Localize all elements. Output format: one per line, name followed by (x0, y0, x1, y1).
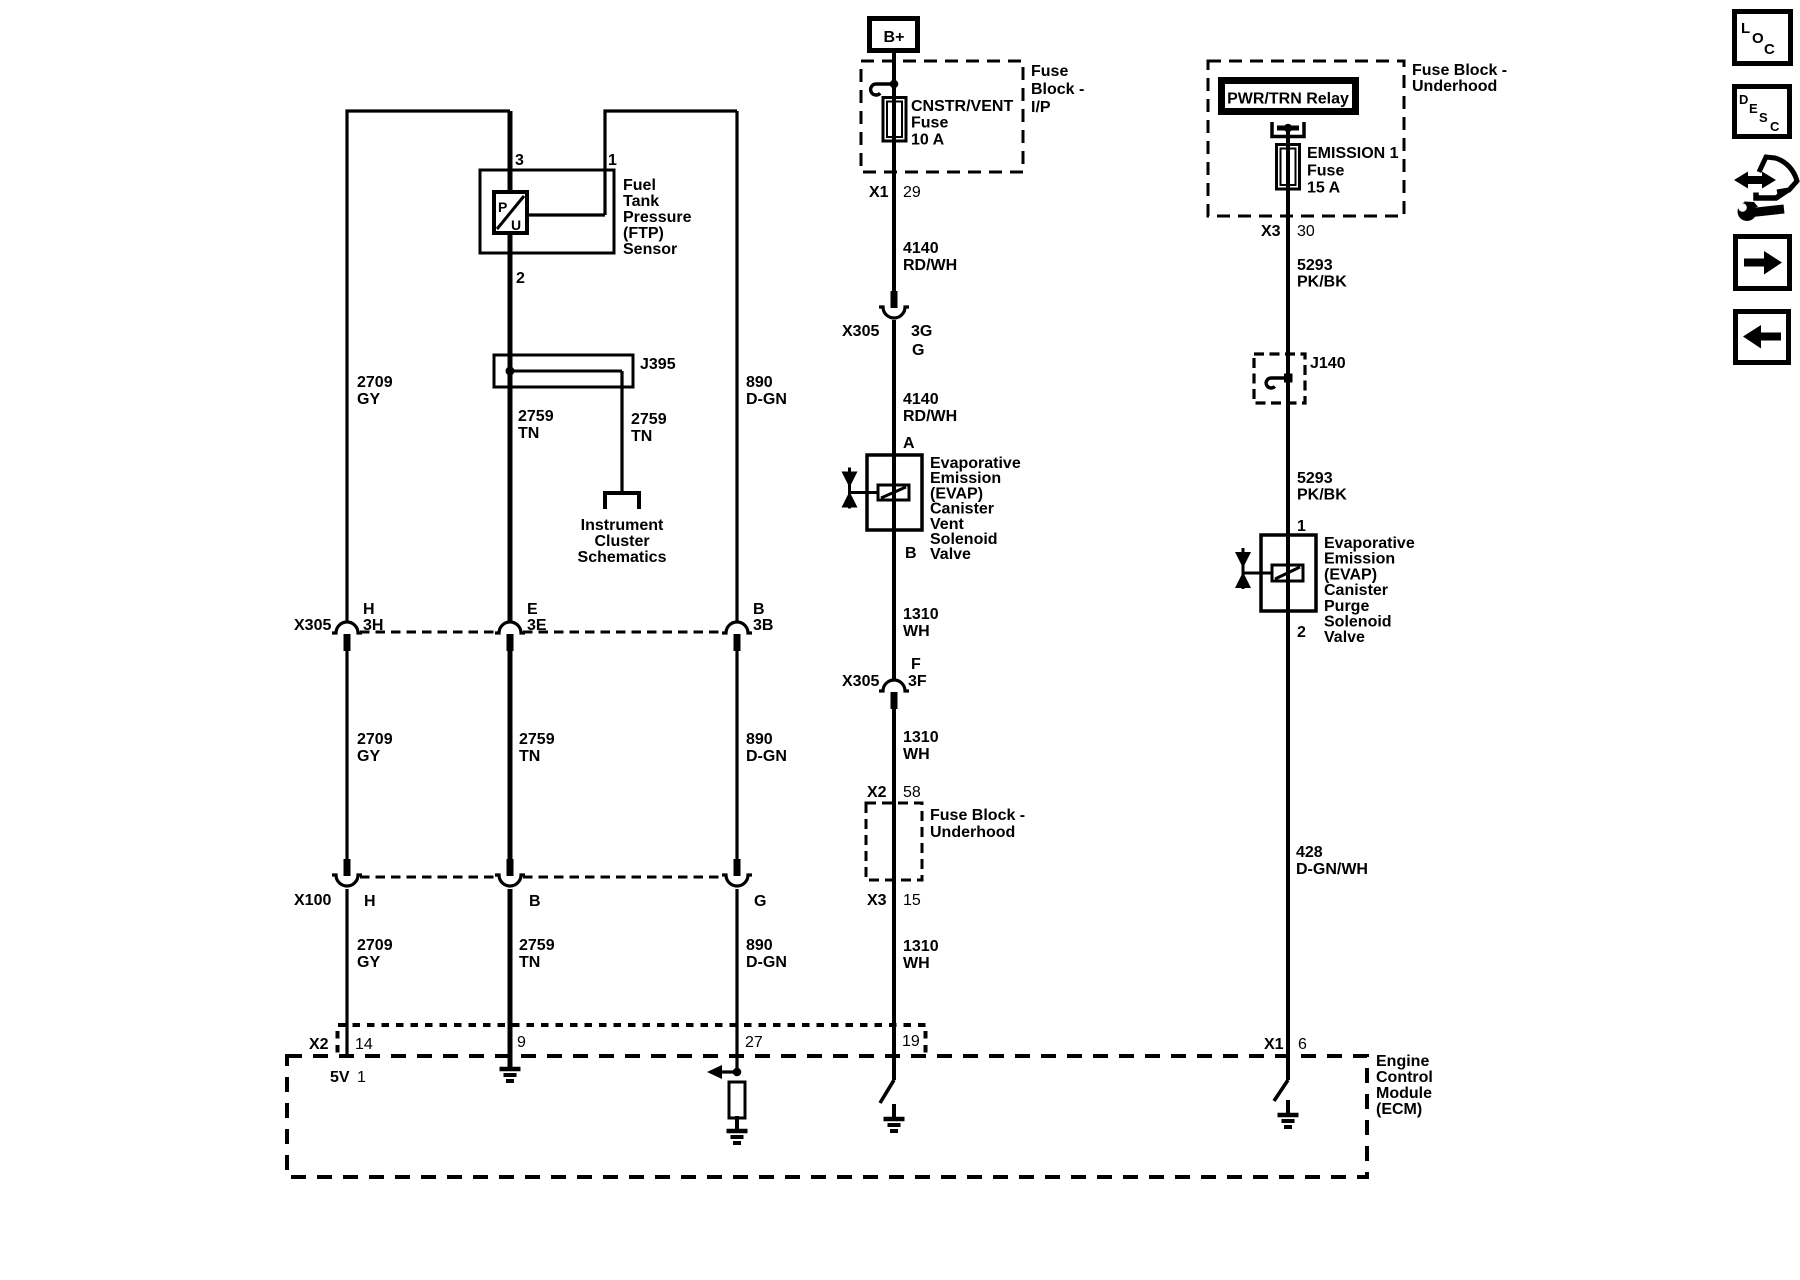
wire FTP pin 1 branch to 890 D-GN (605, 111, 737, 215)
splice J395 box (494, 355, 633, 387)
svg-text:2709: 2709 (357, 937, 393, 954)
svg-text:3B: 3B (753, 617, 773, 634)
wire 2709 GY left branch: top horizontal and vertical to X305 (347, 111, 510, 621)
svg-text:3G: 3G (911, 323, 932, 340)
svg-text:10 A: 10 A (911, 131, 945, 148)
svg-text:Fuel: Fuel (623, 177, 656, 194)
svg-text:58: 58 (903, 784, 921, 801)
svg-text:D-GN: D-GN (746, 391, 787, 408)
svg-text:1: 1 (1297, 518, 1306, 535)
svg-text:WH: WH (903, 955, 930, 972)
switch to ground (ECM pin 6) (1274, 1080, 1288, 1101)
svg-text:P: P (498, 199, 507, 215)
connector row X100 dashed line (360, 876, 497, 879)
svg-text:Fuse: Fuse (1031, 63, 1068, 80)
wire FTP internal pin1 horizontal (527, 213, 605, 216)
svg-text:1310: 1310 (903, 729, 939, 746)
svg-text:1310: 1310 (903, 938, 939, 955)
svg-text:A: A (903, 435, 915, 452)
connector X305 3G terminal (891, 291, 898, 308)
svg-text:I/P: I/P (1031, 99, 1051, 116)
wire relay to fuse (1286, 128, 1290, 1080)
svg-text:B+: B+ (884, 29, 905, 46)
svg-text:TN: TN (519, 748, 540, 765)
connector X305 pin B terminal (722, 622, 752, 633)
svg-text:(EVAP): (EVAP) (1324, 566, 1377, 583)
svg-text:Underhood: Underhood (930, 824, 1015, 841)
svg-text:Underhood: Underhood (1412, 78, 1497, 95)
svg-text:Tank: Tank (623, 193, 659, 210)
svg-text:J140: J140 (1310, 355, 1346, 372)
svg-text:RD/WH: RD/WH (903, 257, 957, 274)
svg-text:Solenoid: Solenoid (1324, 614, 1392, 631)
svg-text:EMISSION 1: EMISSION 1 (1307, 145, 1399, 162)
svg-text:PWR/TRN Relay: PWR/TRN Relay (1227, 91, 1349, 108)
wire 2759 TN center branch (FTP pin 2) (508, 111, 513, 621)
svg-text:PK/BK: PK/BK (1297, 487, 1347, 504)
svg-text:X305: X305 (294, 617, 331, 634)
svg-text:Schematics: Schematics (578, 549, 667, 566)
svg-text:4140: 4140 (903, 391, 939, 408)
svg-text:19: 19 (902, 1033, 920, 1050)
svg-text:X3: X3 (867, 892, 887, 909)
svg-text:Emission: Emission (1324, 551, 1395, 568)
svg-text:Fuse Block -: Fuse Block - (1412, 62, 1507, 79)
svg-text:Block -: Block - (1031, 81, 1084, 98)
svg-text:D-GN: D-GN (746, 954, 787, 971)
svg-text:3E: 3E (527, 617, 547, 634)
svg-text:E: E (527, 601, 538, 618)
svg-text:Control: Control (1376, 1069, 1433, 1086)
wire 890 D-GN right branch down to X305 (735, 111, 738, 621)
connector row X2 dotted line (338, 1023, 927, 1027)
node relay contact junction (1284, 124, 1293, 133)
svg-text:PK/BK: PK/BK (1297, 274, 1347, 291)
svg-text:E: E (1749, 101, 1758, 116)
wire 890 D-GN mid (735, 651, 738, 859)
svg-text:X3: X3 (1261, 223, 1281, 240)
svg-text:1310: 1310 (903, 606, 939, 623)
svg-text:GY: GY (357, 954, 380, 971)
connector X305 3F terminal (879, 680, 909, 691)
svg-text:J395: J395 (640, 356, 676, 373)
connector X305 pin E terminal (495, 622, 525, 633)
Engine Control Module (ECM) dashed box (287, 1056, 1367, 1177)
svg-text:2759: 2759 (518, 408, 554, 425)
svg-text:15 A: 15 A (1307, 180, 1341, 197)
svg-text:U: U (511, 217, 521, 233)
relay output bracket (1272, 122, 1304, 137)
svg-text:X2: X2 (867, 784, 887, 801)
wire B+ to fuse (892, 50, 896, 292)
FTP pressure transducer P/U symbol (494, 192, 527, 233)
svg-text:2: 2 (1297, 624, 1306, 641)
PWR/TRN Relay box (1222, 81, 1356, 112)
svg-text:G: G (912, 342, 924, 359)
svg-text:G: G (754, 893, 766, 910)
svg-text:27: 27 (745, 1034, 763, 1051)
svg-text:Engine: Engine (1376, 1053, 1429, 1070)
wire 2759 TN branch to instrument cluster (620, 371, 623, 493)
wire 1310 WH mid (892, 708, 896, 1080)
wire 1310 WH upper (892, 530, 896, 679)
ground ECM pin 27 (735, 1116, 739, 1131)
svg-text:9: 9 (517, 1034, 526, 1051)
svg-text:890: 890 (746, 374, 773, 391)
svg-text:D-GN: D-GN (746, 748, 787, 765)
svg-text:B: B (905, 545, 917, 562)
svg-text:Instrument: Instrument (581, 517, 664, 534)
ground ECM pin 6 (1286, 1100, 1290, 1115)
svg-text:X1: X1 (869, 184, 889, 201)
svg-text:Cluster: Cluster (594, 533, 649, 550)
wire 4140 RD/WH lower (892, 320, 896, 455)
svg-text:H: H (364, 893, 376, 910)
ground ECM pin 9 (508, 1054, 512, 1069)
svg-text:1: 1 (608, 152, 617, 169)
icon forward arrow box (1736, 237, 1790, 289)
svg-text:4140: 4140 (903, 240, 939, 257)
svg-text:2759: 2759 (631, 411, 667, 428)
svg-text:Valve: Valve (1324, 629, 1365, 646)
splice J140 dashed box (1254, 354, 1305, 403)
svg-text:RD/WH: RD/WH (903, 408, 957, 425)
svg-text:X100: X100 (294, 892, 331, 909)
node clip junction (890, 80, 899, 89)
wire 2759 TN lower (508, 889, 513, 1069)
svg-text:B: B (529, 893, 541, 910)
icon wrench/arrows (1734, 172, 1776, 189)
Fuse Block Underhood dashed box (1208, 61, 1404, 216)
node J140 junction (1284, 374, 1293, 383)
node splice junction dot (506, 367, 515, 376)
battery feed B+ box (870, 19, 918, 51)
svg-text:O: O (1752, 30, 1764, 47)
connector X2 left tick (336, 1031, 340, 1056)
svg-text:D: D (1739, 92, 1748, 107)
svg-text:5293: 5293 (1297, 470, 1333, 487)
svg-text:Sensor: Sensor (623, 241, 677, 258)
svg-text:CNSTR/VENT: CNSTR/VENT (911, 98, 1013, 115)
svg-text:3F: 3F (908, 673, 927, 690)
svg-text:GY: GY (357, 748, 380, 765)
svg-text:890: 890 (746, 937, 773, 954)
svg-text:S: S (1759, 110, 1768, 125)
node pin 27 junction (733, 1068, 742, 1077)
svg-text:X1: X1 (1264, 1036, 1284, 1053)
ground ECM pin 19 (892, 1104, 896, 1119)
svg-text:2759: 2759 (519, 937, 555, 954)
fuse EMISSION 1 15A (1277, 145, 1300, 190)
svg-text:3: 3 (515, 152, 524, 169)
Fuse Block I/P dashed box (861, 61, 1023, 172)
svg-text:C: C (1764, 41, 1775, 58)
connector row X305 dashed line (360, 631, 497, 634)
svg-text:X305: X305 (842, 323, 879, 340)
icon DESC box (1735, 87, 1790, 137)
fuse CNSTR/VENT 10A (883, 98, 906, 142)
svg-text:TN: TN (518, 425, 539, 442)
svg-text:Fuse Block -: Fuse Block - (930, 807, 1025, 824)
svg-text:X305: X305 (842, 673, 879, 690)
svg-text:1: 1 (357, 1069, 366, 1086)
EVAP canister purge solenoid valve (1261, 535, 1316, 611)
EVAP canister vent solenoid valve (867, 455, 922, 530)
svg-text:D-GN/WH: D-GN/WH (1296, 861, 1368, 878)
svg-text:14: 14 (355, 1036, 373, 1053)
svg-text:2: 2 (516, 270, 525, 287)
svg-text:WH: WH (903, 623, 930, 640)
Fuse Block Underhood pass-through dashed box (866, 803, 922, 880)
wire through vent solenoid (892, 455, 896, 530)
connector X100 pin H terminal (344, 859, 351, 876)
svg-text:L: L (1741, 20, 1750, 37)
wire 2709 GY mid (345, 651, 348, 859)
Fuel Tank Pressure (FTP) Sensor box (480, 170, 614, 253)
svg-text:F: F (911, 656, 921, 673)
svg-text:B: B (753, 601, 765, 618)
svg-text:Canister: Canister (1324, 582, 1388, 599)
svg-text:C: C (1770, 119, 1780, 134)
svg-text:Fuse: Fuse (1307, 162, 1344, 179)
fuse holder clip (871, 84, 894, 95)
svg-text:5V: 5V (330, 1069, 350, 1086)
svg-text:Purge: Purge (1324, 598, 1369, 615)
signal arrow (ECM pin 27) (714, 1070, 737, 1073)
svg-text:2709: 2709 (357, 374, 393, 391)
J140 clip (1266, 378, 1288, 388)
svg-text:Evaporative: Evaporative (1324, 535, 1415, 552)
svg-text:TN: TN (519, 954, 540, 971)
off-page connector fork to instrument cluster (605, 493, 639, 509)
svg-text:Pressure: Pressure (623, 209, 692, 226)
svg-text:H: H (363, 601, 375, 618)
svg-text:(ECM): (ECM) (1376, 1101, 1422, 1118)
connector X100 pin G terminal (734, 859, 741, 876)
connector X305 pin H terminal (332, 622, 362, 633)
connector X100 pin B terminal (507, 859, 514, 876)
svg-text:Module: Module (1376, 1085, 1432, 1102)
switch to ground (ECM pin 19) (880, 1080, 894, 1103)
svg-text:15: 15 (903, 892, 921, 909)
resistor (ECM internal pull-up) (729, 1082, 745, 1118)
svg-text:X2: X2 (309, 1036, 329, 1053)
wire 2709 GY lower (345, 889, 348, 1057)
svg-text:2759: 2759 (519, 731, 555, 748)
icon LOC box (1735, 12, 1791, 64)
wire 890 D-GN lower (735, 889, 738, 1072)
svg-text:WH: WH (903, 746, 930, 763)
svg-text:30: 30 (1297, 223, 1315, 240)
svg-text:6: 6 (1298, 1036, 1307, 1053)
svg-text:29: 29 (903, 184, 921, 201)
svg-text:5293: 5293 (1297, 257, 1333, 274)
svg-text:3H: 3H (363, 617, 383, 634)
svg-text:890: 890 (746, 731, 773, 748)
wire 2759 TN mid (508, 651, 513, 859)
relay contact bar (1277, 126, 1299, 131)
svg-text:Valve: Valve (930, 546, 971, 563)
icon back arrow box (1736, 312, 1789, 363)
svg-text:(FTP): (FTP) (623, 225, 664, 242)
svg-text:GY: GY (357, 391, 380, 408)
svg-text:428: 428 (1296, 844, 1323, 861)
svg-text:Fuse: Fuse (911, 115, 948, 132)
connector X2 right tick (924, 1031, 928, 1056)
svg-text:TN: TN (631, 428, 652, 445)
wire splice horizontal (510, 370, 622, 373)
wire through purge solenoid redraw (1286, 535, 1290, 611)
svg-text:2709: 2709 (357, 731, 393, 748)
